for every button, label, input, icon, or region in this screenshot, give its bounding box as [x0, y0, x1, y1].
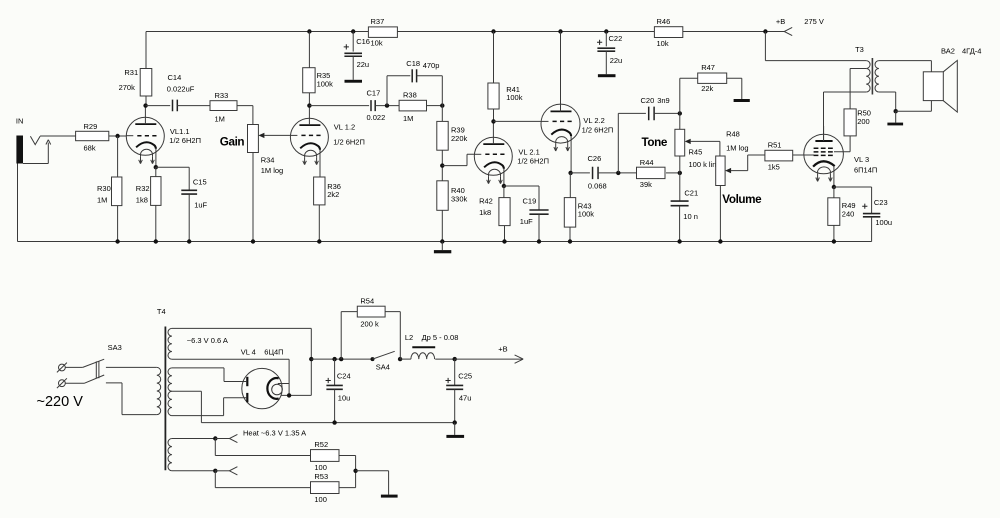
svg-text:R47: R47: [701, 63, 715, 72]
wire node to C21: [679, 173, 681, 201]
svg-text:T3: T3: [855, 45, 864, 54]
wire plate to C17: [309, 105, 369, 107]
wire R33 to R34 pot: [237, 106, 253, 125]
wire node to R39: [441, 106, 443, 122]
wire HV top to VL4 anode 1: [172, 368, 246, 382]
wire divider to VL2.1 grid: [442, 154, 474, 165]
wire SA3 to T4 primary bottom: [106, 383, 157, 415]
wire R50 to winding tap: [850, 67, 866, 69]
svg-text:100u: 100u: [875, 218, 892, 227]
wire R29 to VL1.1 grid: [109, 135, 127, 137]
T4 primary winding: [157, 367, 161, 414]
node R39/R40 divider: [440, 163, 444, 167]
svg-text:1/2 6Н2П: 1/2 6Н2П: [517, 157, 549, 166]
wire SA3 to T4 primary top: [106, 366, 157, 368]
triode VL1.1: [126, 117, 164, 163]
T3 secondary winding: [875, 61, 879, 92]
wire cathode to R32: [155, 167, 157, 176]
wire to R54: [341, 312, 357, 360]
wire R43 to ground rail: [569, 227, 571, 241]
wire cathode to R43: [569, 173, 571, 198]
wire R49 to ground rail: [833, 225, 835, 241]
capacitor C26: [593, 167, 599, 179]
potentiometer R48 (Volume): [716, 156, 725, 186]
svg-text:C21: C21: [684, 188, 698, 197]
svg-text:22u: 22u: [357, 60, 370, 69]
jack tip contact: [30, 136, 40, 144]
wire rail to VL2.2 plate: [560, 32, 562, 112]
wire VL3 plate lead inner: [823, 126, 825, 141]
wire SA3 pole 1: [66, 366, 83, 368]
resistor R52: [311, 450, 340, 462]
wire R35 to plate node: [308, 93, 310, 106]
svg-text:100k: 100k: [317, 80, 334, 89]
svg-text:100: 100: [314, 463, 327, 472]
wire VL1.2 plate lead: [308, 106, 310, 126]
svg-text:R31: R31: [124, 68, 138, 77]
T3 core: [871, 58, 873, 95]
wire C24 to return rail: [334, 389, 336, 422]
T3 primary winding: [866, 61, 870, 92]
wire HV centre tap down: [172, 391, 202, 422]
svg-text:Heat ~6.3 V 1.35 A: Heat ~6.3 V 1.35 A: [243, 428, 306, 437]
wire C23 to ground rail: [871, 217, 873, 242]
capacitor C15: [181, 190, 197, 194]
wire to arrow: [215, 470, 229, 472]
capacitor C14: [173, 100, 178, 112]
wire R48 wiper to R51: [748, 155, 765, 171]
resistor R51: [765, 150, 793, 161]
T4 HV winding upper half: [168, 368, 172, 391]
resistor R42: [499, 198, 510, 226]
wire R47 to ground: [727, 78, 742, 99]
svg-text:R37: R37: [371, 17, 385, 26]
svg-text:Volume: Volume: [722, 193, 762, 206]
svg-text:1uF: 1uF: [520, 217, 533, 226]
wire R38 to node: [427, 105, 443, 107]
wire node to C25: [454, 359, 456, 385]
ground below C16: [345, 80, 363, 83]
node heat top: [213, 436, 217, 440]
wire to +B arrow: [455, 358, 523, 360]
wire T3 primary to VL3 plate: [824, 92, 867, 141]
wire VL2.1 cathode lead: [503, 169, 505, 186]
resistor R46: [654, 27, 682, 38]
wire node to R45: [679, 113, 681, 129]
node C26/C20/R44: [616, 171, 620, 175]
wire node to R47: [680, 78, 698, 113]
node R44/R45/C21: [678, 171, 682, 175]
svg-text:T4: T4: [157, 307, 166, 316]
svg-text:200 k: 200 k: [360, 319, 379, 328]
terminal +B 275V (top right): [784, 27, 792, 35]
wire R30 to ground rail: [117, 206, 119, 242]
node C24 return: [332, 420, 336, 424]
svg-text:270k: 270k: [119, 83, 136, 92]
wire centre to ground: [356, 471, 389, 495]
wire to arrow: [215, 438, 229, 440]
T4 core: [164, 327, 166, 471]
wire rail to C16: [352, 32, 354, 52]
svg-text:39k: 39k: [640, 180, 652, 189]
wire T3 secondary to speaker +: [879, 61, 932, 72]
wire R34 bottom to ground rail: [252, 153, 254, 242]
wire node to ground: [895, 111, 897, 122]
wire VL3 cathode lead: [833, 166, 835, 187]
svg-text:68k: 68k: [84, 144, 96, 153]
svg-text:6П14П: 6П14П: [854, 165, 877, 174]
jack sleeve arrow head: [46, 140, 51, 145]
svg-text:SA4: SA4: [376, 363, 390, 372]
svg-text:IN: IN: [16, 116, 24, 125]
wire cathode to R49: [833, 187, 835, 198]
T4 heater winding 6.3V 1.35A: [168, 439, 172, 471]
wire to R30: [117, 136, 119, 177]
svg-text:L2: L2: [405, 333, 413, 342]
connector IN jack body: [16, 136, 23, 164]
svg-text:4ГД-4: 4ГД-4: [962, 47, 981, 56]
triode VL 2.1: [474, 137, 512, 183]
ground heater centre: [381, 495, 398, 498]
wire L2 to C25 node: [435, 358, 455, 360]
wire jack sleeve: [23, 143, 48, 164]
wire R52/R53 join: [339, 456, 356, 488]
wire R36 to ground rail: [318, 205, 320, 242]
svg-text:C17: C17: [367, 88, 381, 97]
wire heat bottom lead: [172, 470, 215, 472]
svg-text:100k: 100k: [578, 209, 595, 218]
SA3 blade 2: [85, 375, 105, 383]
wire rail to R41: [493, 32, 495, 84]
svg-text:1/2 6Н2П: 1/2 6Н2П: [333, 138, 365, 147]
svg-text:1k5: 1k5: [768, 163, 780, 172]
wire plate node to C14: [146, 105, 171, 107]
resistor R36: [314, 177, 325, 205]
wire jack tip to R29: [40, 135, 76, 137]
node rail/VL2.2 plate: [558, 29, 562, 33]
wire VL2.2 cathode lead: [570, 136, 572, 173]
ground below speaker: [887, 123, 903, 126]
node rectifier output: [309, 357, 313, 361]
node VL2.1 plate / VL2.2 grid: [491, 119, 495, 123]
svg-text:C24: C24: [337, 371, 351, 380]
resistor R39: [437, 121, 448, 150]
svg-text:200: 200: [857, 117, 870, 126]
svg-text:0.022uF: 0.022uF: [167, 85, 195, 94]
svg-text:R46: R46: [657, 17, 671, 26]
resistor R44: [637, 167, 666, 178]
wire rail to ground symbol: [441, 242, 443, 251]
node C25/+B out: [453, 357, 457, 361]
svg-text:10k: 10k: [371, 39, 383, 48]
svg-text:1M: 1M: [403, 114, 413, 123]
svg-text:R53: R53: [314, 472, 328, 481]
wire jack to ground rail: [17, 164, 19, 242]
ground below R47: [734, 99, 750, 102]
wire C17 to R38: [375, 105, 399, 107]
T4 secondary winding 6.3V 0.6A: [168, 328, 172, 359]
wire PSU return rail: [201, 422, 454, 424]
capacitor C23: [863, 214, 880, 217]
wire C20 to node: [654, 112, 680, 114]
resistor R31: [140, 69, 152, 97]
svg-text:220k: 220k: [451, 134, 468, 143]
wire heater branch: [278, 383, 289, 385]
node rail/R35: [307, 29, 311, 33]
svg-text:VL 3: VL 3: [854, 155, 869, 164]
capacitor C17: [371, 100, 375, 111]
node speaker return: [894, 109, 898, 113]
potentiometer R45 (Tone): [675, 129, 685, 156]
wire R50 to VL3 screen grid: [834, 136, 850, 152]
wire R40 to ground rail: [441, 210, 443, 241]
wire node to C24: [334, 359, 336, 385]
wire down to R50: [849, 68, 851, 108]
SA4 blade: [373, 351, 395, 359]
ground on main rail: [434, 250, 451, 253]
wire heat bottom to R53: [215, 471, 310, 488]
svg-text:Gain: Gain: [220, 135, 245, 148]
svg-text:~6.3 V 0.6 A: ~6.3 V 0.6 A: [187, 336, 228, 345]
wire C25 to return rail: [454, 389, 456, 422]
node R54 left: [339, 357, 343, 361]
node C17/R38/C18: [385, 103, 389, 107]
resistor R29: [76, 131, 109, 140]
resistor R50: [844, 109, 856, 136]
node VL2.2 cathode: [568, 171, 572, 175]
svg-text:VL 2.2: VL 2.2: [583, 116, 604, 125]
speaker BA2 4GD-4: [923, 72, 943, 101]
svg-text:ВА2: ВА2: [941, 47, 955, 56]
resistor R43: [564, 198, 575, 228]
wire node to speaker -: [896, 101, 932, 112]
svg-text:+B: +B: [776, 17, 785, 26]
wire to VL2.2 grid: [494, 120, 542, 122]
wire cathode to C19: [504, 186, 539, 210]
svg-text:R29: R29: [84, 122, 98, 131]
wire R45 wiper to R48: [719, 141, 721, 156]
wire R41 to node: [493, 109, 495, 121]
wire bottom ground rail: [18, 241, 872, 243]
wire cathode to R42: [503, 186, 505, 198]
resistor R37: [368, 27, 397, 38]
wire C15 to ground rail: [188, 194, 190, 241]
wire C16 to ground: [352, 56, 354, 80]
node rail/C16: [351, 29, 355, 33]
node cathode/heater: [287, 393, 291, 397]
svg-text:3n9: 3n9: [657, 96, 670, 105]
svg-text:1M log: 1M log: [261, 166, 284, 175]
svg-text:R38: R38: [403, 91, 417, 100]
svg-text:330k: 330k: [451, 194, 468, 203]
node heat bottom: [213, 469, 217, 473]
resistor R41: [488, 83, 499, 109]
svg-text:6Ц4П: 6Ц4П: [264, 348, 283, 357]
potentiometer R34 (Gain): [248, 125, 259, 153]
capacitor C25: [446, 385, 463, 389]
resistor R54: [357, 306, 385, 317]
node SA4 contact: [398, 357, 402, 361]
svg-text:R34: R34: [261, 155, 275, 164]
svg-text:Tone: Tone: [642, 136, 668, 149]
triode VL 1.2: [290, 118, 328, 164]
wire 6.3V bottom to VL4 heater: [172, 359, 289, 395]
node VL2.1 cathode: [502, 184, 506, 188]
wire C21 to ground rail: [679, 206, 681, 242]
node R29/R30 junction: [115, 134, 119, 138]
node R52/R53 centre: [353, 469, 357, 473]
wire R54 to SA4 contact: [385, 312, 400, 360]
wire cathode to C23: [834, 187, 872, 214]
wire R39 to R40: [441, 150, 443, 181]
svg-text:R48: R48: [726, 130, 740, 139]
node rail/R41: [491, 29, 495, 33]
svg-text:VL 2.1: VL 2.1: [518, 148, 539, 157]
svg-text:1/2 6Н2П: 1/2 6Н2П: [169, 136, 201, 145]
capacitor C16: [344, 53, 362, 56]
svg-text:100: 100: [314, 495, 327, 504]
svg-text:22k: 22k: [701, 84, 713, 93]
svg-text:10k: 10k: [657, 39, 669, 48]
svg-text:22u: 22u: [610, 56, 623, 65]
node VL1.1 plate: [143, 103, 147, 107]
wire VL1.1 cathode lead: [155, 149, 157, 168]
wire B+ node line: [311, 358, 372, 360]
wire VL4 cathode out: [281, 394, 311, 396]
node rail/+B takeoff: [763, 29, 767, 33]
wire R48 bottom to ground rail: [719, 186, 721, 242]
resistor R38: [399, 100, 426, 111]
svg-text:C14: C14: [168, 73, 182, 82]
wire R51 to VL3 grid: [793, 154, 814, 156]
svg-text:47u: 47u: [459, 394, 472, 403]
svg-text:~220 V: ~220 V: [37, 394, 84, 410]
node rail/C22: [604, 29, 608, 33]
node R38/C18/R39: [440, 103, 444, 107]
svg-text:C18: C18: [406, 59, 420, 68]
triode VL 2.2: [541, 104, 580, 151]
resistor R47: [698, 73, 727, 83]
capacitor C24: [326, 385, 342, 389]
svg-text:0.022: 0.022: [367, 113, 386, 122]
svg-text:Др 5 - 0.08: Др 5 - 0.08: [422, 333, 459, 342]
svg-text:SA3: SA3: [108, 343, 122, 352]
svg-text:10u: 10u: [338, 394, 351, 403]
resistor R33: [210, 101, 237, 111]
svg-text:2k2: 2k2: [327, 190, 339, 199]
resistor R53: [311, 482, 340, 494]
svg-text:C25: C25: [458, 371, 472, 380]
wire VL1.2 cathode to R36: [319, 150, 321, 177]
wire C14 to R33: [177, 105, 210, 107]
wire heat top lead: [172, 438, 215, 440]
capacitor C21: [671, 201, 689, 206]
wire R44 to node: [666, 172, 680, 174]
svg-text:R30: R30: [97, 184, 111, 193]
svg-text:C19: C19: [523, 197, 537, 206]
svg-text:VL 1.2: VL 1.2: [334, 122, 355, 131]
svg-text:R32: R32: [136, 184, 150, 193]
capacitor C19: [529, 210, 548, 214]
wire rail to C22: [605, 32, 607, 47]
svg-text:R51: R51: [768, 141, 782, 150]
capacitor C22: [597, 48, 615, 51]
wire R31 to plate node: [145, 96, 147, 106]
ground PSU: [446, 435, 464, 438]
wire cathode to C26: [571, 172, 590, 174]
node VL3 cathode: [832, 185, 836, 189]
wire HV bottom to VL4 anode 2: [172, 398, 246, 416]
svg-text:R33: R33: [215, 91, 229, 100]
resistor R32: [151, 177, 161, 206]
svg-text:VL 4: VL 4: [241, 348, 256, 357]
svg-text:1/2 6Н2П: 1/2 6Н2П: [582, 125, 614, 134]
svg-text:R54: R54: [360, 296, 374, 305]
svg-text:C23: C23: [874, 198, 888, 207]
wire 6.3V top to node: [172, 328, 311, 359]
node C20/R47/R45: [678, 111, 682, 115]
resistor R49: [828, 198, 840, 226]
svg-text:0.068: 0.068: [588, 181, 607, 190]
wire to PSU ground: [454, 423, 456, 435]
wire heat top to R52: [215, 439, 310, 456]
wire C26 to R44: [598, 172, 636, 174]
wire +B to T3 primary: [765, 32, 866, 61]
svg-text:+B: +B: [498, 344, 507, 353]
ground below C22: [598, 74, 616, 77]
svg-text:R52: R52: [314, 440, 328, 449]
wire R32 to ground rail: [155, 205, 157, 241]
svg-text:VL1.1: VL1.1: [170, 127, 190, 136]
wire R42 to ground rail: [504, 226, 506, 242]
resistor R30: [112, 177, 122, 206]
svg-text:1uF: 1uF: [194, 200, 207, 209]
svg-text:470p: 470p: [423, 61, 440, 70]
wire top +B rail: [146, 31, 784, 33]
terminal +B out: [515, 355, 524, 363]
wire node up to C20: [618, 113, 646, 172]
capacitor C20: [649, 107, 654, 121]
svg-text:C15: C15: [193, 178, 207, 187]
wire VL1.1 plate lead: [144, 106, 146, 125]
pentode VL 3: [804, 134, 844, 181]
wire rail to R35: [308, 32, 310, 68]
svg-text:C22: C22: [609, 34, 623, 43]
wire C18 to node: [417, 76, 443, 106]
svg-text:240: 240: [842, 210, 855, 219]
svg-text:C20: C20: [641, 96, 655, 105]
svg-text:R42: R42: [479, 197, 493, 206]
svg-text:275 V: 275 V: [804, 17, 824, 26]
svg-text:R44: R44: [640, 158, 654, 167]
node VL1.2 plate: [307, 103, 311, 107]
wire rail to R31: [145, 32, 147, 69]
svg-text:1k8: 1k8: [479, 208, 491, 217]
wire up to C18: [387, 76, 410, 106]
svg-text:1M log: 1M log: [726, 143, 749, 152]
resistor R35: [303, 68, 315, 93]
wire VL2.1 plate lead: [492, 121, 494, 144]
T4 HV winding lower half: [168, 391, 172, 415]
svg-text:1M: 1M: [97, 196, 107, 205]
svg-text:C16: C16: [356, 37, 370, 46]
wire T3 secondary to ground node: [879, 92, 896, 111]
wire SA3 pole 2: [66, 382, 85, 384]
svg-text:10 n: 10 n: [683, 212, 698, 221]
node VL1.1 cathode: [154, 165, 158, 169]
wire C22 to ground: [605, 51, 607, 74]
capacitor C18: [412, 69, 416, 82]
